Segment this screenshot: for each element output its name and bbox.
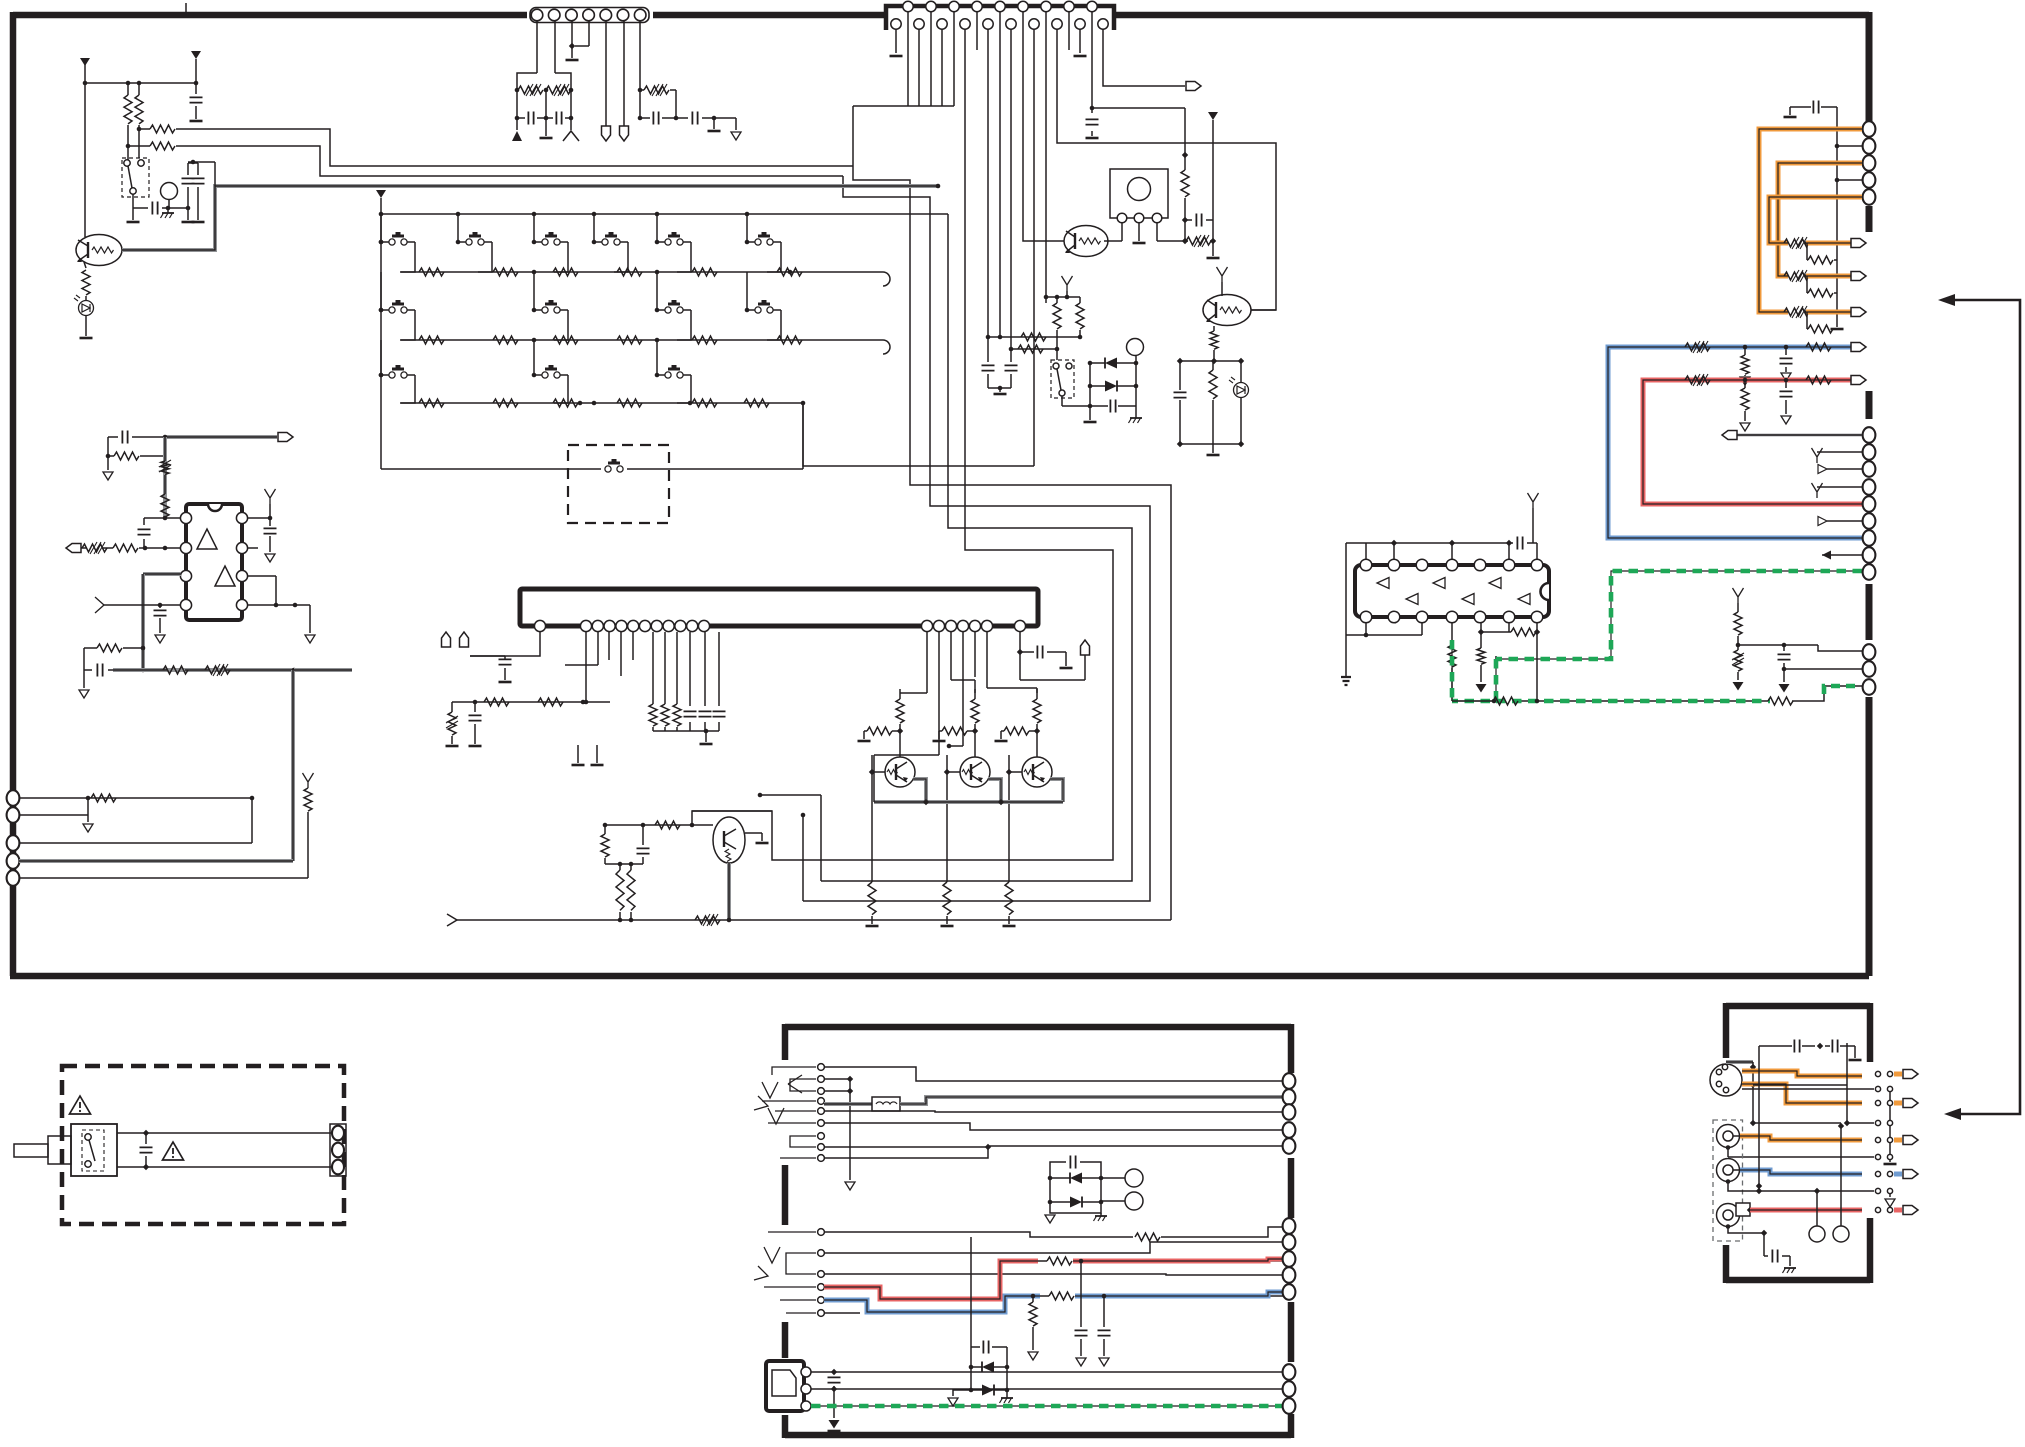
Y node R2 [1062, 276, 1073, 291]
wire J1 c9 [824, 1147, 988, 1158]
block B outline bottom [785, 1432, 1291, 1439]
plug P-R4 [1851, 343, 1866, 352]
ground J1 [845, 1182, 855, 1190]
inverter tri 1 [1377, 578, 1389, 589]
wire CN-A pin1 [536, 21, 538, 73]
safety resistor R-M6 [205, 666, 230, 674]
power inlet shape [772, 1370, 796, 1396]
matrix top bus [381, 213, 948, 215]
connector CN-B bottom pin 3 [937, 19, 947, 29]
ground CN-A mid [540, 137, 553, 140]
wire U-R top bus [1346, 542, 1513, 544]
wire CN-B b8 route [1057, 29, 1276, 310]
wire clusterA pin1 [585, 632, 587, 702]
resistor R-C8 [601, 834, 609, 857]
capacitor C-L1 [190, 97, 203, 102]
through pins y1157 [1875, 1154, 1880, 1159]
ground R-O3b [995, 740, 1008, 743]
resistor R-B1 [1806, 343, 1831, 351]
block B pad M2 [1283, 1234, 1296, 1250]
capacitor C-L3 [192, 178, 205, 183]
right pad B8 [1863, 547, 1876, 563]
resistor R-R6 [1076, 303, 1084, 329]
circle button B-L [161, 183, 178, 200]
right pad C2 [1863, 661, 1876, 677]
IC U-L right pin 3 [236, 570, 247, 581]
wire staircase L4 [692, 29, 1113, 860]
ground VCC2 [1207, 257, 1220, 260]
capacitor C-B1 [1780, 358, 1793, 363]
safety resistor R-a2 [546, 86, 571, 94]
IC U-L right pin 4 [236, 599, 247, 610]
block B pad L3 [1283, 1104, 1296, 1120]
ground C-Y2 [1849, 1059, 1862, 1062]
jack J1 body [772, 1067, 816, 1075]
wire staircase L2 [803, 176, 1150, 901]
left edge pad 5 [7, 870, 20, 886]
resistor R-M5b [97, 644, 122, 652]
connector CN-B bottom pin 6 [1006, 19, 1016, 29]
wire Q-O1 emitter [913, 779, 926, 802]
resistor R-G1 [1493, 697, 1518, 705]
IC U-L notch [208, 504, 222, 511]
CN-A net row2 [515, 116, 520, 121]
IC U-R top pin 3 [1416, 559, 1428, 571]
block B pad M4 [1283, 1267, 1296, 1283]
wire CN-B b5 drop [987, 29, 989, 337]
ground right vert [1831, 328, 1844, 331]
safety resistor R-R2 [1186, 237, 1211, 245]
capacitor C-X1 [140, 1147, 153, 1152]
connector CN-A outline [530, 8, 649, 23]
safety resistor R-P2 [1784, 272, 1809, 280]
connector CN-A pin 1 [531, 9, 543, 21]
op-amp A1 [197, 529, 217, 549]
switch SW-L bottom net [132, 194, 134, 208]
Y node LE [303, 773, 314, 788]
ground CN-B b9 [1074, 55, 1087, 58]
resistor R-U3 [1511, 628, 1536, 636]
block B outline top [785, 1024, 1291, 1031]
IC U-C pinB3 [945, 620, 956, 631]
wire cap pair [1759, 1045, 1792, 1047]
wire caps top [188, 162, 198, 164]
chassis cluster2 [1001, 1397, 1013, 1399]
wire J1 c6 [824, 1123, 1285, 1130]
wire row8 [1759, 1190, 1874, 1192]
wire DIN junctions [1752, 1062, 1754, 1123]
orange wire D1 [1742, 1071, 1862, 1076]
safety resistor R-C3 [448, 712, 456, 735]
ground CN-B b1 [890, 55, 903, 58]
wire U-L pin3L gray [143, 572, 181, 576]
wire U-L pin1R [247, 517, 270, 519]
terminal circle U2 [1833, 1226, 1849, 1242]
orange wire plug 3 [1806, 310, 1851, 315]
blue wire J2 [824, 1296, 1040, 1312]
inverter tri 2 [1433, 578, 1445, 589]
capacitor C-a3 [556, 112, 561, 125]
resistor R-C9 [616, 870, 624, 910]
IC U-C pinB6 [981, 620, 992, 631]
connector CN-B top pin 9 [1087, 1, 1097, 11]
AC plug body [48, 1136, 71, 1164]
ground open M2 [155, 635, 165, 643]
key switch row2 col x657 [656, 272, 658, 310]
through pins y1140 [1875, 1137, 1880, 1142]
terminal circle T2 [1125, 1192, 1143, 1210]
blue branch [1743, 345, 1748, 350]
capacitor C-a4 [653, 112, 658, 125]
right pad B7 [1863, 530, 1876, 546]
transistor Q-O2 [960, 757, 990, 787]
blue wire D5 [1740, 1170, 1862, 1174]
power switch contacts [85, 1134, 91, 1140]
terminal circle T1 [1125, 1169, 1143, 1187]
wire CN-B b7 drop (keyline) [1033, 29, 1035, 466]
wire U-L pin2R [247, 547, 258, 549]
resistor R-M5 [163, 666, 188, 674]
safety resistor R-a3 [644, 86, 669, 94]
matrix rail3 junctions [578, 401, 583, 406]
resistor R-R7 [1021, 333, 1046, 341]
wire CN-A pin3 [571, 21, 573, 46]
jack J1 contacts [818, 1064, 825, 1071]
resistor R-O3e [1005, 882, 1013, 915]
ground R-O2b [933, 740, 946, 743]
IC U-R top pin 7 [1531, 559, 1543, 571]
wire J1 ground stub [824, 1078, 850, 1080]
right pad A5 [1863, 189, 1876, 205]
block C outline left [1723, 1003, 1730, 1058]
resistor R-L1 [124, 95, 132, 124]
jack J2 contacts [818, 1229, 825, 1236]
diode D-J4 [982, 1385, 994, 1396]
ferrite FL1 [872, 1097, 900, 1111]
green path pin4 [1451, 640, 1453, 701]
wire cluster2 gnd [953, 1390, 971, 1396]
wire LE4 gray [19, 859, 293, 863]
plug P-D5 [1903, 1206, 1918, 1215]
wire R cluster top [1180, 360, 1241, 362]
indicator circle [1127, 339, 1144, 356]
power arrow VCC-L2 [191, 51, 201, 59]
IC U-L left pin 4 [180, 599, 191, 610]
resonator X1 circle [1128, 178, 1151, 201]
connector CN-X outline [330, 1124, 346, 1176]
block B pad M5 [1283, 1284, 1296, 1300]
wire clusterB pin drops [926, 632, 928, 693]
RCA jack 3 [1717, 1204, 1740, 1227]
IC U-C pinA9 [675, 620, 686, 631]
resistor R-O1a [896, 699, 904, 723]
block B pad N2 [1283, 1381, 1296, 1397]
matrix bottom line [381, 468, 601, 470]
red wire long [1643, 380, 1862, 504]
wire Q-O2 emitter [988, 779, 1001, 802]
IC U-L right pin 2 [236, 542, 247, 553]
red wire J2 c [1073, 1259, 1286, 1261]
wire Q-O3 base [1009, 771, 1022, 773]
wire R cluster bottom [1180, 443, 1241, 445]
plug P-C3 [1081, 640, 1090, 655]
matrix rail3 route [803, 403, 1034, 466]
safety resistor R-P3 [1784, 308, 1809, 316]
right pad A3 [1863, 155, 1876, 171]
connector CN-B bottom pin 7 [1029, 19, 1039, 29]
resistor R-U2 [1477, 648, 1485, 664]
IC U-C pinA8 [663, 620, 674, 631]
ground rows [1884, 1163, 1897, 1166]
connector CN-B bottom pin 8 [1052, 19, 1062, 29]
wire U-C right pin [1019, 632, 1021, 652]
power arrow VCC-L1 [80, 58, 90, 66]
wire Q-O3 emitter [1050, 779, 1063, 802]
resistor R-L5 [82, 270, 90, 295]
wire U-L pin3R [247, 575, 276, 577]
capacitor C-C1 [469, 715, 482, 720]
red tip [1894, 1208, 1902, 1213]
key switch row1 col x594 [593, 214, 595, 242]
ground open M4 [305, 635, 315, 643]
safety resistor R-P1 [1784, 239, 1809, 247]
Y node R1 [1217, 267, 1228, 282]
ground open row8 [1885, 1199, 1895, 1207]
resistor R-D1 [1806, 376, 1831, 384]
ground C-L1 [190, 120, 203, 123]
capacitor C-J1 [1070, 1156, 1075, 1169]
matrix power arrow [376, 190, 386, 198]
ground C-C6 [1060, 667, 1073, 670]
through pins y1174 [1875, 1171, 1880, 1176]
connector CN-A pin 4 [583, 9, 595, 21]
blue wire J2 c [1075, 1292, 1286, 1296]
wire U-L pin4L [112, 604, 181, 606]
through pins y1103 [1875, 1100, 1880, 1105]
wire U-R pin5 drop [1480, 622, 1482, 648]
capacitor C-M2b [138, 529, 151, 534]
block B outline right [1288, 1024, 1295, 1073]
plug P-R2 [1851, 272, 1866, 281]
IC U-R bottom pin 1 [1360, 611, 1372, 623]
safety resistor R-a1 [518, 86, 543, 94]
red branch [1743, 378, 1748, 383]
wire J1 c5 [824, 1111, 1285, 1112]
IC U-R outline [1355, 565, 1549, 617]
wire Q-L1 out gray [122, 186, 938, 250]
feedback line [1944, 300, 2020, 1114]
capacitor C-R2 [1174, 392, 1187, 397]
key switch row1 col x657 [656, 214, 658, 242]
ground R-O1b [858, 740, 871, 743]
IC U-C pinA7 [651, 620, 662, 631]
black wire D3 [1753, 1084, 1847, 1086]
ground cluster2 [948, 1398, 958, 1406]
wire Q-C1 emitter [727, 863, 731, 920]
capacitor C-R3 [982, 365, 995, 370]
wire CN-A pin2 [554, 21, 556, 73]
green junctions [1492, 699, 1497, 704]
capacitor C-R1 [1196, 214, 1201, 227]
wire J2 c2 [824, 1242, 1285, 1253]
connector CN-B bottom pin 9 [1075, 19, 1085, 29]
wire CN-A pin6 [623, 21, 625, 126]
safety resistor R-RC2 [1734, 650, 1742, 671]
resistor R-Pb1 [1808, 256, 1833, 264]
arrow node B8 [1822, 551, 1831, 560]
CN-A net verticals [516, 90, 518, 130]
chassis C-Y3 [1784, 1267, 1796, 1269]
red wire J2 [824, 1261, 1038, 1299]
resistor hang [1031, 1294, 1036, 1299]
chassis B-L [162, 212, 174, 214]
wire J1 c1 [824, 1067, 1285, 1081]
connector CN-B top pin 4 [972, 1, 982, 11]
wire J2 c6 [824, 1312, 860, 1314]
plug pin5 [602, 126, 611, 141]
ground C-C1 [446, 745, 459, 748]
wire U-R vcc [1345, 543, 1347, 635]
capacitor C-C6 [1037, 646, 1042, 659]
block B pad M3 [1283, 1251, 1296, 1267]
IC U-L right pin 1 [236, 512, 247, 523]
capacitor C-M2 [154, 610, 167, 615]
right pad A2 [1863, 138, 1876, 154]
wire U-R pin7 drop [1536, 622, 1538, 701]
wire U-R top stubs [1365, 543, 1367, 560]
resistor R-L2 [135, 95, 143, 124]
ground D-L1 [80, 337, 93, 340]
matrix bottom line right [627, 468, 803, 470]
wire Q-C1 right [745, 832, 762, 834]
right pad B4 [1863, 479, 1876, 495]
resistor R-RC1 [1734, 612, 1742, 635]
capacitor C-RC1 [1778, 654, 1791, 659]
dashed switch box SW-R [1051, 360, 1074, 398]
capacitor C-C3 [699, 711, 712, 716]
diode bridge left [1089, 363, 1091, 406]
red blue hang [1079, 1259, 1084, 1264]
connector CN-B top pin 3 [949, 1, 959, 11]
wire Q-O2 bias [967, 730, 975, 732]
ground open CN-A [731, 132, 741, 140]
through pins y1074 [1875, 1071, 1880, 1076]
IC U-R top pin 2 [1388, 559, 1400, 571]
gray stub DIN [1726, 1060, 1753, 1064]
resistor R-U1 [1448, 645, 1456, 667]
wire LE3 [19, 842, 252, 844]
wire cap drop [1758, 1046, 1760, 1062]
RCA jack 2 [1717, 1159, 1740, 1182]
plug P-R5 [1851, 376, 1866, 385]
IC U-L left pin 1 [180, 512, 191, 523]
gray drop [291, 670, 295, 861]
ground open C-D1 [1781, 416, 1791, 424]
plug P-R6 [1722, 431, 1737, 440]
wire CN-B b10 route [1103, 29, 1185, 86]
capacitor C-SW [152, 202, 157, 215]
blue wire J2 b [1040, 1295, 1049, 1297]
wire pin6 link [1508, 622, 1510, 632]
resistor R-O2e [943, 882, 951, 915]
wire CN-B t5 drop [999, 12, 1001, 337]
wire osc row2 [1011, 348, 1057, 350]
capacitor C-M1 [122, 431, 127, 444]
block B pad L2 [1283, 1089, 1296, 1105]
wire Q-O1 base [872, 771, 885, 773]
resistor R-O3b [1004, 727, 1029, 735]
resistor R-C1 [484, 698, 509, 706]
transistor Q-R2 [1203, 295, 1251, 326]
connector CN-B top pin 2 [926, 1, 936, 11]
wire Q-R1 out [1104, 240, 1122, 242]
wire J1 c8 [824, 1146, 1285, 1147]
capacitor C-U1 [1517, 537, 1522, 550]
ground R cluster [1207, 454, 1220, 457]
matrix resistor rail1 [400, 271, 883, 273]
capacitor C-a2 [528, 112, 533, 125]
block B pad L4 [1283, 1122, 1296, 1138]
wire arrow line [447, 914, 457, 926]
wire Q-R2 loop [1251, 309, 1276, 311]
gray wire pad B1 [1737, 434, 1862, 437]
key switch row2 col x381 [380, 272, 382, 310]
resistor R-M4 [113, 544, 138, 552]
key switch row3 col x381 [380, 340, 382, 375]
IC U-R top pin 5 [1474, 559, 1486, 571]
Y node B2 [1812, 448, 1823, 463]
matrix rail1 hook [883, 272, 890, 286]
matrix rail2 hook [883, 340, 890, 354]
matrix bus junctions [456, 212, 461, 217]
IC U-C pin left [534, 620, 545, 631]
resistor R-C5 [661, 704, 669, 726]
switch SW-L contacts [124, 160, 130, 166]
ground open M1 [103, 472, 113, 480]
gray bottom line [113, 668, 294, 672]
IC U-R bottom pin 3 [1416, 611, 1428, 623]
wire LE2 [19, 814, 88, 816]
transistor Q-O1 [885, 757, 915, 787]
resistor R-LE1 [91, 794, 116, 802]
wire Q-L1 emitter [84, 262, 86, 268]
IC U-C pinB5 [969, 620, 980, 631]
ground T pair [572, 764, 585, 767]
dashed switch box SW-L [122, 158, 149, 197]
key switch row3 col x534 [533, 340, 535, 375]
ground Q-O1 [866, 925, 879, 928]
wire CN-B b1 stub [895, 29, 897, 53]
resistor R-C7 [655, 821, 680, 829]
IC U-R top pin 1 [1360, 559, 1372, 571]
plug P-M2 [66, 544, 81, 553]
connector CN-B top pin 1 [903, 1, 913, 11]
right pad B9 [1863, 564, 1876, 580]
wire row2 [1742, 1088, 1874, 1090]
power up arrow [512, 131, 522, 141]
wire gray top [165, 435, 277, 439]
ground C-L2 [182, 221, 195, 224]
gray emitter bus [874, 800, 1063, 804]
connector CN-A pin 3 [566, 9, 578, 21]
wire J2 c1 cont [1161, 1227, 1285, 1237]
orange wire O3 [1769, 197, 1862, 243]
capacitor C-Y3 [1772, 1250, 1777, 1263]
connector CN-B top pin 5 [995, 1, 1005, 11]
through pins y1089 [1875, 1086, 1880, 1091]
switch wire bottom [117, 1166, 335, 1168]
through pins y1123 [1875, 1120, 1880, 1125]
